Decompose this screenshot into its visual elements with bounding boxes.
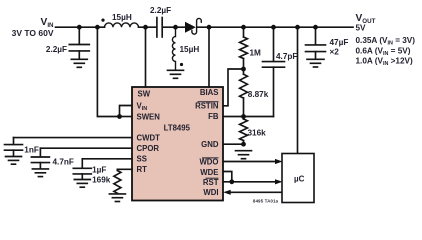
- svg-text:1nF: 1nF: [24, 146, 39, 155]
- svg-text:8495 TA01a: 8495 TA01a: [253, 199, 279, 204]
- svg-text:SS: SS: [137, 155, 147, 164]
- svg-text:WDO: WDO: [199, 158, 218, 167]
- svg-text:CWDT: CWDT: [137, 133, 161, 142]
- svg-text:RST: RST: [203, 178, 219, 187]
- svg-text:SW: SW: [138, 89, 151, 98]
- svg-text:LT8495: LT8495: [164, 124, 191, 133]
- svg-text:3V TO 60V: 3V TO 60V: [12, 28, 54, 38]
- svg-text:15µH: 15µH: [112, 13, 132, 22]
- svg-text:WDE: WDE: [200, 168, 218, 177]
- svg-text:316k: 316k: [248, 129, 267, 138]
- svg-text:4.7nF: 4.7nF: [53, 158, 74, 167]
- svg-text:1M: 1M: [250, 48, 262, 57]
- svg-text:8.87k: 8.87k: [248, 90, 269, 99]
- svg-text:BIAS: BIAS: [200, 88, 219, 97]
- svg-text:4.7pF: 4.7pF: [276, 52, 297, 61]
- svg-text:WDI: WDI: [203, 188, 218, 197]
- svg-text:CPOR: CPOR: [137, 144, 160, 153]
- svg-text:µC: µC: [294, 175, 305, 184]
- svg-text:GND: GND: [201, 140, 219, 149]
- svg-text:5V: 5V: [356, 24, 367, 33]
- svg-text:RSTIN: RSTIN: [195, 102, 219, 111]
- svg-text:×2: ×2: [330, 48, 340, 57]
- svg-text:0.35A (VIN = 3V): 0.35A (VIN = 3V): [356, 36, 416, 47]
- svg-text:SWEN: SWEN: [137, 112, 161, 121]
- svg-text:1µF: 1µF: [92, 166, 106, 175]
- svg-text:FB: FB: [208, 112, 219, 121]
- svg-text:47µF: 47µF: [330, 38, 349, 47]
- svg-text:169k: 169k: [92, 176, 111, 185]
- svg-text:15µH: 15µH: [180, 45, 200, 54]
- svg-text:2.2µF: 2.2µF: [46, 45, 67, 54]
- svg-text:2.2µF: 2.2µF: [150, 6, 171, 15]
- svg-text:RT: RT: [137, 165, 148, 174]
